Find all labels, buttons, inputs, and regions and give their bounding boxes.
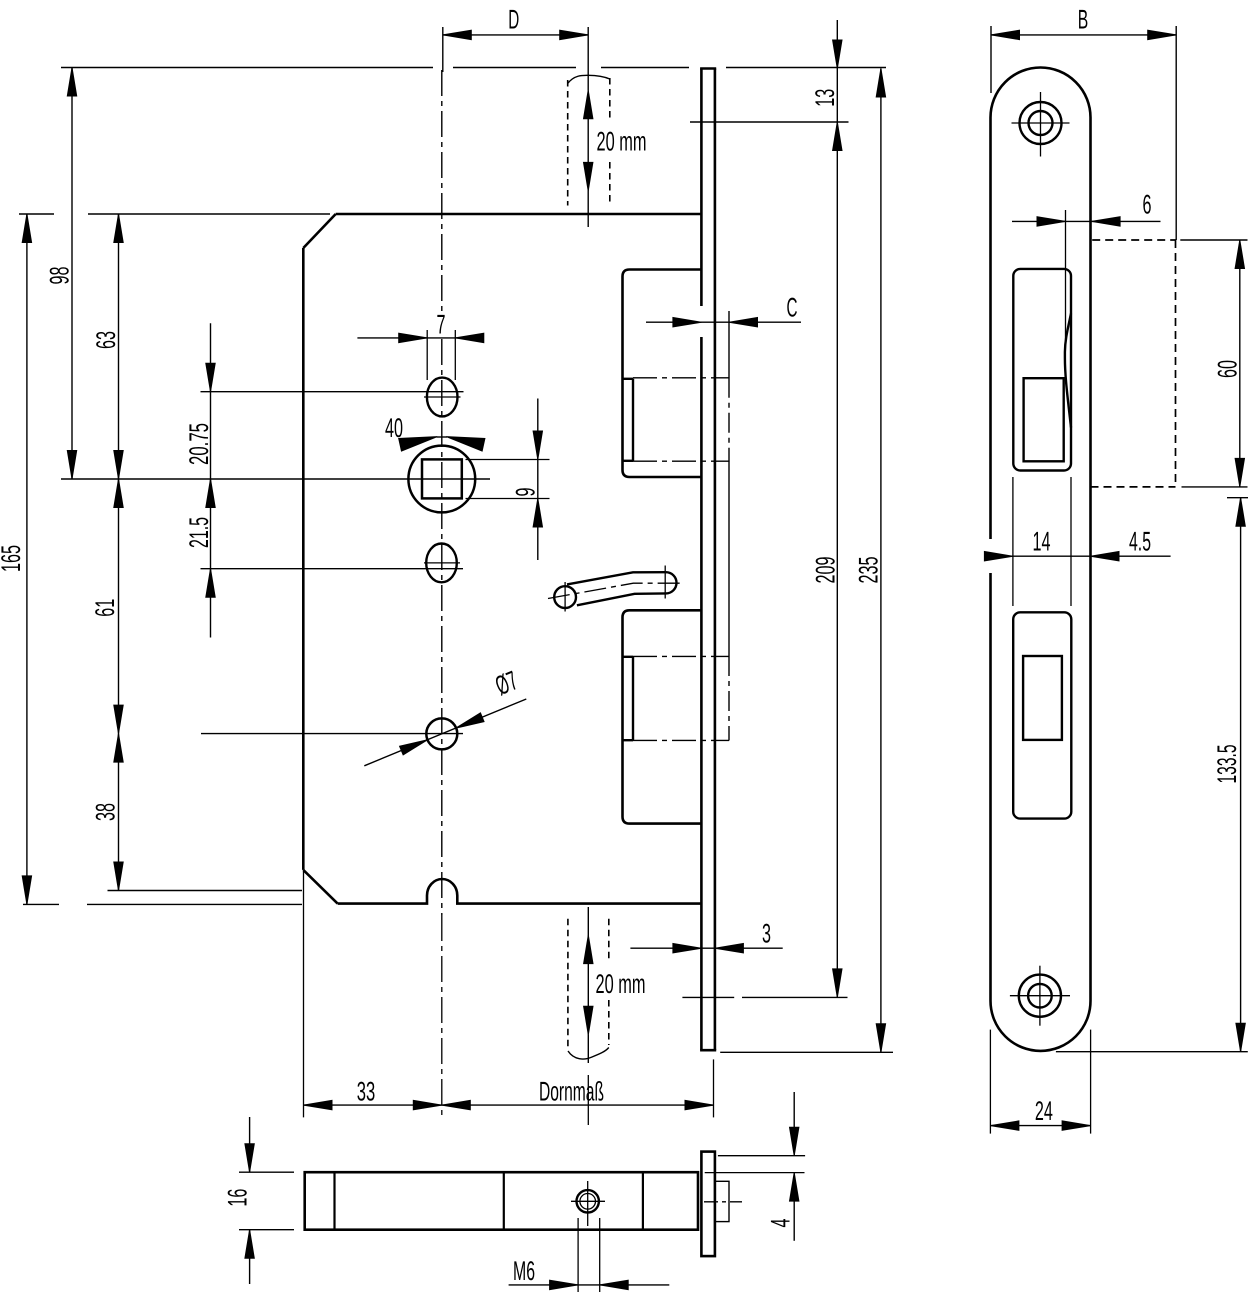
svg-text:20.75: 20.75: [184, 423, 214, 465]
dim C: [646, 321, 801, 323]
latch tail guide: [632, 379, 634, 461]
lower spindle hidden outline right: [608, 919, 610, 962]
svg-text:209: 209: [811, 557, 841, 584]
svg-text:165: 165: [0, 545, 26, 572]
faceplate right line: [714, 69, 717, 1051]
dim 4 extension lines: [718, 1155, 805, 1157]
lock case top edge: [336, 213, 702, 216]
upper spindle hidden outline right: [609, 78, 611, 120]
dim 16: [249, 1117, 251, 1172]
20mm arrows top: [584, 90, 593, 119]
svg-text:40: 40: [385, 413, 403, 443]
svg-text:9: 9: [511, 488, 541, 497]
dim line 13 and 209: [836, 20, 838, 997]
svg-text:M6: M6: [513, 1256, 535, 1286]
dim 7 extension lines: [426, 330, 428, 380]
svg-text:16: 16: [223, 1189, 253, 1207]
dim 6: [1065, 210, 1067, 345]
M6 tapped hole: [577, 1190, 599, 1212]
svg-text:20 mm: 20 mm: [596, 969, 646, 999]
deadbolt phantom right edge: [728, 656, 730, 741]
latch tip extension line: [728, 311, 730, 378]
lower spindle hidden outline left: [567, 919, 569, 1050]
235 bottom reference line: [720, 1051, 893, 1053]
latch phantom right edge: [728, 378, 730, 461]
svg-text:33: 33: [357, 1077, 376, 1107]
dim 165: [26, 214, 28, 904]
vertical centerline through holes: [441, 70, 443, 311]
top screw hole: [1020, 102, 1062, 144]
dim 4: [793, 1092, 795, 1156]
svg-text:4: 4: [766, 1219, 796, 1228]
svg-text:Dornmaß: Dornmaß: [539, 1077, 604, 1107]
svg-text:4.5: 4.5: [1129, 527, 1151, 557]
faceplate front outline: [991, 67, 1091, 1050]
case top extension line: [19, 213, 54, 215]
svg-text:13: 13: [810, 89, 840, 107]
svg-text:D: D: [508, 5, 519, 35]
lower spindle centerline and 20mm dim line: [587, 907, 589, 935]
dim chain 20.75 21.5: [210, 323, 212, 637]
lock case top chamfer: [303, 214, 335, 248]
deadbolt phantom bottom: [633, 739, 729, 741]
case bottom extension line: [23, 903, 59, 905]
dim 60 extension lines: [1180, 239, 1247, 241]
latch bolt phantom top: [633, 377, 729, 379]
faceplate bottom view: [701, 1152, 715, 1257]
latch tip bottom view: [715, 1181, 729, 1221]
cylinder screw hole d7: [426, 718, 457, 749]
svg-text:6: 6: [1143, 190, 1152, 220]
latch module housing: [623, 270, 702, 478]
dim 9 extension lines: [466, 459, 550, 461]
bottom screw hole: [1019, 975, 1061, 1017]
follower square spindle hole: [422, 459, 462, 498]
latch slant silhouette: [1065, 314, 1071, 428]
dim 98: [71, 68, 73, 480]
upper spindle centerline and 20mm dim line: [587, 27, 589, 90]
follower hub circle: [408, 446, 475, 513]
svg-text:133.5: 133.5: [1212, 745, 1242, 784]
dim 24 extension lines: [989, 1030, 991, 1134]
svg-text:7: 7: [437, 310, 446, 340]
faceplate left line: [700, 69, 703, 307]
follower reference line: [61, 478, 490, 480]
dim 60: [1239, 240, 1241, 487]
faceplate bottom cap: [700, 1049, 716, 1052]
dim B: [990, 26, 992, 93]
20mm arrows bottom: [584, 935, 593, 964]
dim D: [442, 27, 444, 72]
plate bottom reference line: [1056, 1051, 1248, 1053]
lock case bottom view outline: [305, 1172, 698, 1230]
svg-text:235: 235: [854, 557, 884, 584]
dim line 235: [880, 69, 882, 1053]
dim 16 extension lines: [239, 1171, 294, 1173]
svg-text:98: 98: [45, 267, 75, 285]
latch cutout: [1013, 269, 1071, 471]
lower fixing hole oval: [426, 544, 457, 583]
diameter 7 leader: [364, 699, 526, 766]
209 bottom reference line: [682, 996, 734, 998]
upper spindle hidden outline left: [567, 80, 569, 206]
lock case bottom edge with notch: [338, 879, 701, 904]
svg-text:63: 63: [91, 331, 121, 349]
dim 33 and Dornmass: [303, 871, 305, 1117]
svg-text:38: 38: [91, 803, 121, 821]
dim 40: [437, 436, 448, 438]
dim 14 and 4.5: [984, 555, 1171, 557]
screw center reference line 13: [690, 121, 849, 123]
deadbolt cutout: [1013, 612, 1071, 818]
svg-text:61: 61: [90, 599, 120, 617]
latch face: [1024, 378, 1064, 461]
dim 14 and 4.5 extension lines: [1012, 477, 1014, 606]
dim 9: [537, 399, 539, 561]
change lever bottom outline: [577, 593, 666, 605]
change lever left end circle: [554, 586, 576, 608]
dim 7: [357, 337, 481, 339]
dim 133.5 top reference: [1227, 497, 1248, 499]
dim chain 63 61 38: [118, 214, 120, 891]
deadbolt face: [1023, 656, 1062, 740]
dim 24: [990, 1125, 1090, 1127]
svg-text:14: 14: [1033, 527, 1051, 557]
faceplate top cap: [700, 67, 716, 70]
svg-text:C: C: [787, 293, 798, 323]
svg-text:3: 3: [762, 919, 771, 949]
change lever left tick: [564, 582, 566, 612]
lock case bottom chamfer: [303, 870, 337, 904]
strike zone dashed box: [1092, 239, 1175, 241]
dim M6: [509, 1284, 670, 1286]
d7 hole reference line: [201, 733, 463, 735]
change lever right cap: [666, 572, 677, 593]
38 bottom reference line: [108, 890, 303, 892]
lower spindle end arc: [568, 1048, 609, 1060]
dim M6 extension lines: [577, 1218, 579, 1292]
change lever top outline: [567, 572, 666, 584]
change lever centerline: [548, 583, 681, 598]
dim 133.5: [1240, 498, 1242, 1052]
lock case left edge: [302, 248, 305, 870]
deadbolt module housing: [623, 610, 702, 823]
deadbolt tail guide: [632, 657, 634, 740]
deadbolt phantom top: [633, 655, 729, 657]
lower oval reference line: [201, 568, 464, 570]
change lever right tick: [664, 566, 666, 599]
upper spindle end arc: [568, 75, 610, 83]
dim 3: [630, 947, 782, 949]
svg-text:60: 60: [1213, 360, 1243, 378]
case divider lines: [333, 1172, 335, 1230]
upper oval reference line: [201, 391, 464, 393]
svg-text:20 mm: 20 mm: [597, 127, 647, 157]
svg-text:21.5: 21.5: [184, 517, 214, 548]
svg-text:B: B: [1078, 5, 1089, 35]
latch bolt phantom bottom: [633, 460, 729, 462]
svg-text:24: 24: [1035, 1096, 1053, 1126]
upper fixing hole oval: [427, 378, 458, 417]
top reference line: [61, 67, 433, 69]
